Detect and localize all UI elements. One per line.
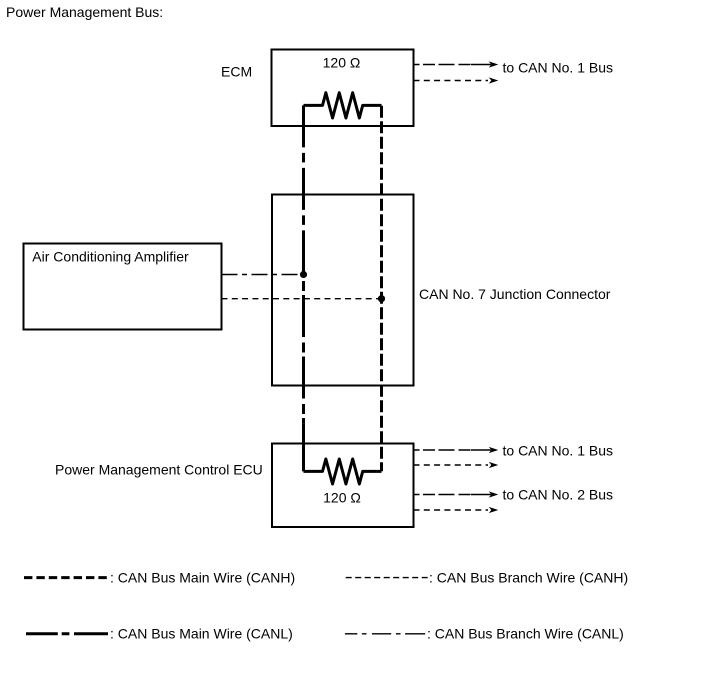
arrow CANL to CAN No. 1 Bus (top): [414, 61, 499, 67]
wire CANL main vertical (below junction dot): [302, 281, 305, 423]
arrow CANH to CAN No. 2 Bus: [414, 507, 499, 513]
node CANH junction dot: [378, 295, 385, 302]
Power Management Control ECU box: [272, 444, 414, 528]
svg-text:120 Ω: 120 Ω: [323, 55, 361, 71]
arrow CANL to CAN No. 2 Bus: [414, 491, 499, 497]
svg-text:ECM: ECM: [221, 64, 252, 80]
svg-text:: CAN Bus Main Wire (CANL): : CAN Bus Main Wire (CANL): [110, 626, 293, 642]
wire CANH branch (amplifier to junction): [222, 298, 382, 300]
legend sample CAN Bus Main Wire (CANL): [26, 632, 108, 635]
svg-text:: CAN Bus Branch Wire (CANL): : CAN Bus Branch Wire (CANL): [427, 626, 624, 642]
wire CANL branch (amplifier to junction): [222, 274, 304, 276]
svg-text:: CAN Bus Main Wire (CANH): : CAN Bus Main Wire (CANH): [110, 570, 295, 586]
legend sample CAN Bus Branch Wire (CANL): [345, 633, 425, 635]
CAN No. 7 Junction Connector box: [272, 195, 414, 386]
legend sample CAN Bus Branch Wire (CANH): [346, 577, 428, 579]
svg-text:: CAN Bus Branch Wire (CANH): : CAN Bus Branch Wire (CANH): [429, 570, 628, 586]
svg-text:to CAN No. 1 Bus: to CAN No. 1 Bus: [503, 443, 614, 459]
svg-text:Air Conditioning Amplifier: Air Conditioning Amplifier: [32, 249, 189, 265]
wire CANL main vertical (solid end into R2 lead): [302, 423, 305, 471]
arrow CANL to CAN No. 1 Bus (bottom): [414, 447, 499, 453]
Air Conditioning Amplifier box: [24, 244, 222, 330]
arrow CANH to CAN No. 1 Bus (bottom): [414, 462, 499, 468]
svg-text:Power Management Bus:: Power Management Bus:: [6, 4, 163, 20]
svg-text:to CAN No. 2 Bus: to CAN No. 2 Bus: [503, 487, 614, 503]
resistor R1 (120 Ω in ECM): [304, 93, 382, 118]
ECM box: [272, 50, 414, 127]
arrow CANH to CAN No. 1 Bus (top): [414, 77, 499, 83]
node CANL junction dot: [300, 271, 307, 278]
svg-text:Power Management Control ECU: Power Management Control ECU: [55, 462, 263, 478]
wire CANL main vertical (R1 lead to junction dot): [302, 105, 305, 274]
svg-text:to CAN No. 1 Bus: to CAN No. 1 Bus: [503, 60, 614, 76]
wire CANH main vertical: [380, 106, 383, 472]
resistor R2 (120 Ω in Power Management Control ECU): [304, 459, 382, 484]
legend sample CAN Bus Main Wire (CANH): [24, 576, 107, 579]
svg-text:120 Ω: 120 Ω: [323, 490, 361, 506]
svg-text:CAN No. 7 Junction Connector: CAN No. 7 Junction Connector: [419, 286, 611, 302]
